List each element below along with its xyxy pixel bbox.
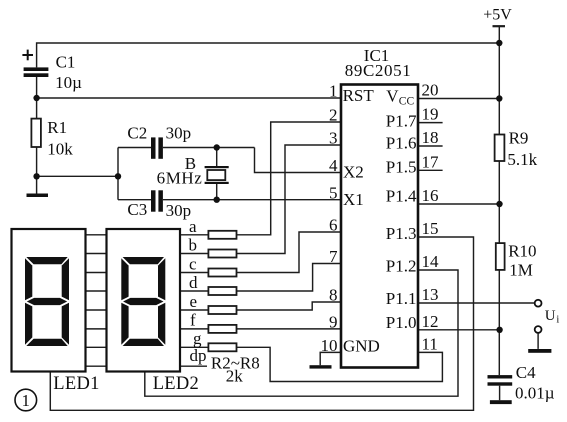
svg-text:7: 7 — [329, 247, 338, 266]
svg-text:b: b — [189, 236, 198, 255]
svg-text:11: 11 — [422, 334, 438, 353]
svg-text:LED2: LED2 — [153, 374, 199, 394]
svg-text:8: 8 — [329, 286, 338, 305]
svg-text:89C2051: 89C2051 — [345, 61, 412, 80]
svg-text:1: 1 — [22, 391, 31, 410]
svg-text:1M: 1M — [509, 261, 533, 280]
svg-text:d: d — [189, 273, 198, 292]
svg-text:30p: 30p — [166, 201, 192, 220]
svg-text:RST: RST — [343, 86, 375, 105]
svg-text:3: 3 — [329, 129, 338, 148]
svg-text:2k: 2k — [226, 367, 244, 386]
svg-text:P1.3: P1.3 — [386, 224, 417, 243]
svg-text:0.01µ: 0.01µ — [515, 384, 555, 403]
svg-text:C4: C4 — [516, 363, 536, 382]
svg-text:4: 4 — [329, 156, 338, 175]
svg-text:P1.0: P1.0 — [386, 313, 417, 332]
svg-text:17: 17 — [422, 152, 440, 171]
svg-text:18: 18 — [422, 128, 439, 147]
svg-text:dp: dp — [190, 346, 207, 365]
svg-text:CC: CC — [399, 96, 415, 108]
svg-text:P1.6: P1.6 — [386, 134, 417, 153]
svg-text:P1.5: P1.5 — [386, 158, 417, 177]
svg-text:e: e — [190, 292, 198, 311]
svg-text:C1: C1 — [56, 52, 76, 71]
svg-text:30p: 30p — [166, 124, 192, 143]
svg-text:X2: X2 — [343, 163, 364, 182]
svg-text:9: 9 — [329, 312, 338, 331]
svg-text:10µ: 10µ — [55, 73, 82, 92]
svg-text:5.1k: 5.1k — [507, 150, 537, 169]
svg-text:+5V: +5V — [483, 7, 512, 24]
svg-text:6: 6 — [329, 216, 338, 235]
svg-text:i: i — [556, 315, 559, 326]
svg-text:U: U — [545, 308, 556, 324]
svg-text:P1.2: P1.2 — [386, 257, 417, 276]
svg-text:16: 16 — [422, 186, 439, 205]
svg-text:LED1: LED1 — [53, 374, 99, 394]
svg-text:10: 10 — [321, 336, 338, 355]
svg-text:P1.1: P1.1 — [386, 289, 417, 308]
svg-text:R9: R9 — [509, 129, 529, 148]
svg-text:12: 12 — [422, 312, 439, 331]
svg-text:a: a — [189, 217, 197, 236]
svg-text:2: 2 — [329, 106, 338, 125]
svg-text:X1: X1 — [343, 190, 364, 209]
svg-text:6MHz: 6MHz — [157, 169, 203, 188]
svg-text:13: 13 — [422, 285, 439, 304]
svg-text:P1.7: P1.7 — [386, 112, 417, 131]
svg-text:14: 14 — [422, 252, 440, 271]
svg-text:c: c — [189, 254, 197, 273]
svg-text:1: 1 — [329, 82, 338, 101]
svg-text:R10: R10 — [508, 242, 536, 261]
svg-text:20: 20 — [422, 81, 439, 100]
svg-text:10k: 10k — [47, 139, 73, 158]
svg-text:GND: GND — [343, 337, 380, 356]
svg-text:5: 5 — [329, 184, 338, 203]
svg-text:19: 19 — [422, 105, 439, 124]
svg-text:C2: C2 — [127, 124, 147, 143]
svg-text:R1: R1 — [47, 118, 67, 137]
svg-text:V: V — [386, 87, 399, 106]
svg-text:C3: C3 — [127, 200, 147, 219]
svg-text:15: 15 — [422, 219, 439, 238]
svg-text:P1.4: P1.4 — [386, 187, 417, 206]
svg-text:f: f — [190, 311, 196, 330]
